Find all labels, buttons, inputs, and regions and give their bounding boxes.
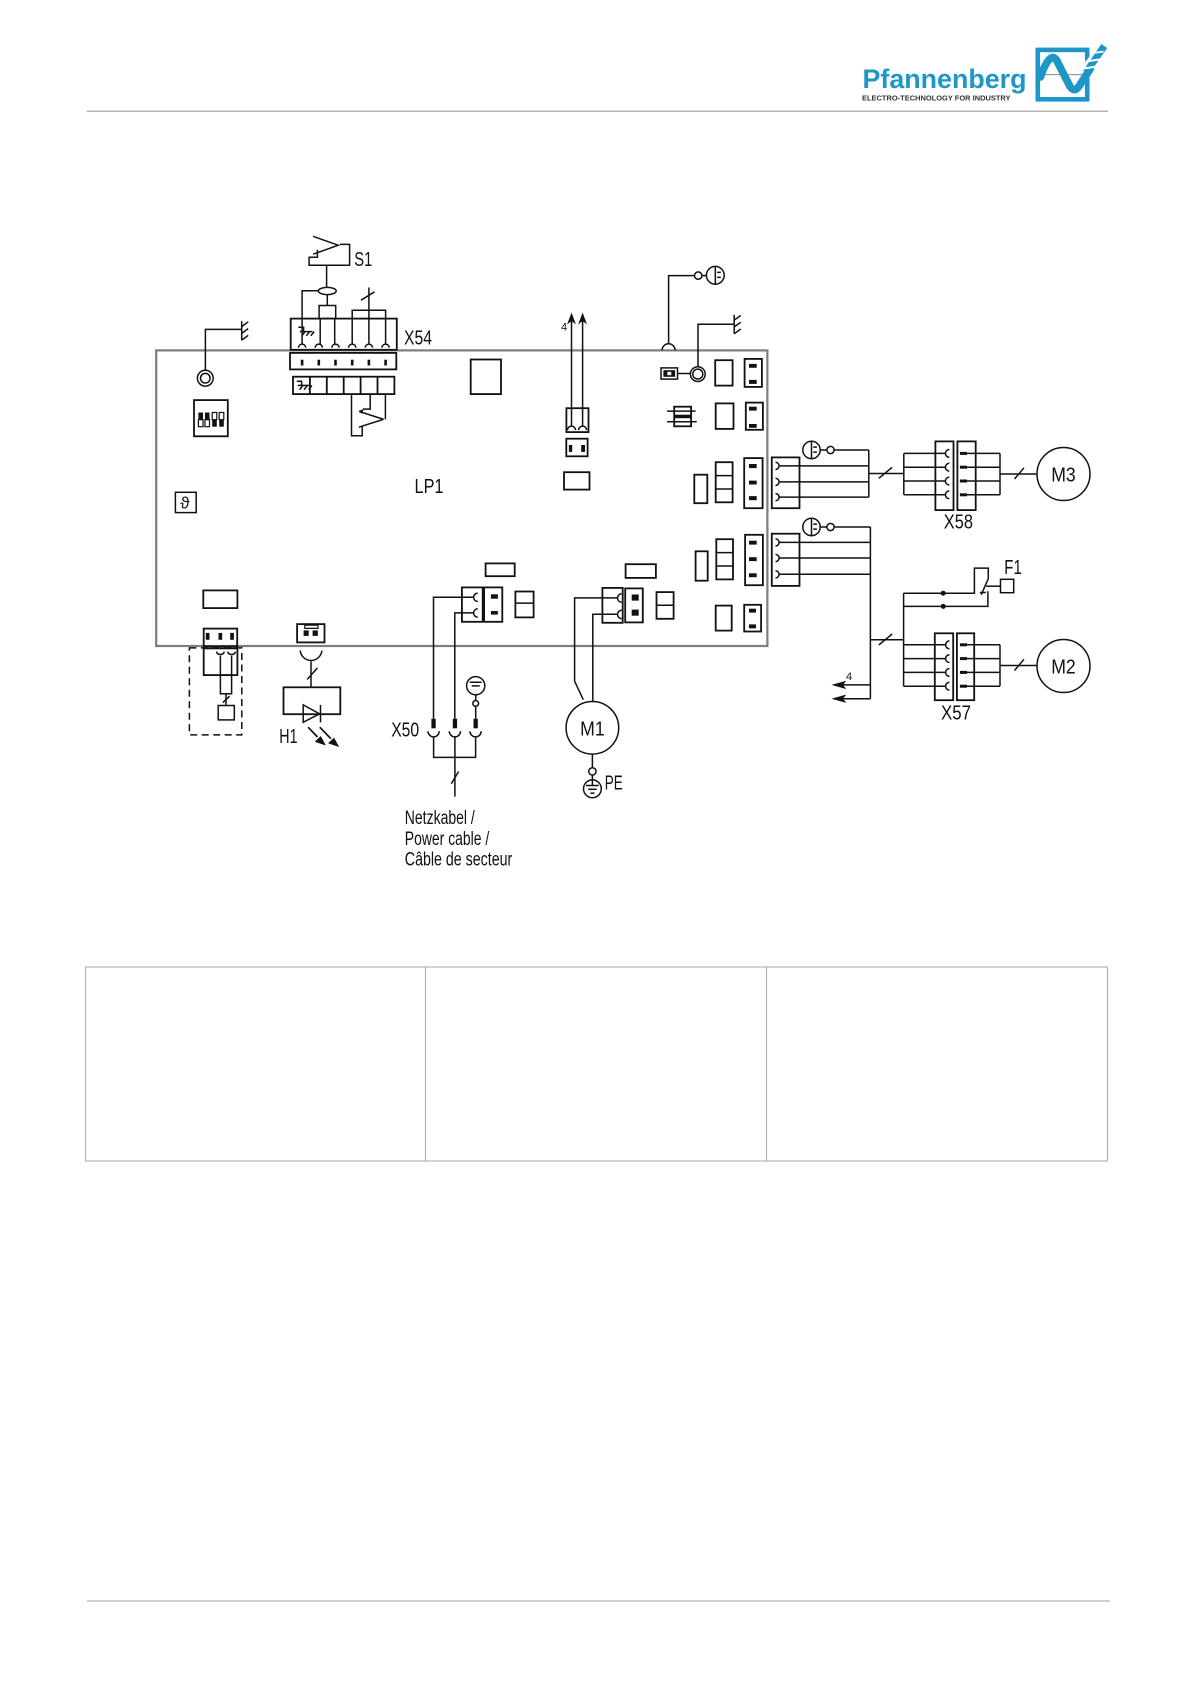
wire chassis to mounting hole (right) (698, 324, 734, 366)
wire M1 to PE (591, 754, 593, 768)
board edge connector (to X58) (772, 457, 800, 508)
relay block row2 (716, 403, 734, 429)
temperature sensor (top) (702, 266, 724, 284)
thermal contact F1 lever (980, 579, 1001, 595)
wire to F1 contact (upper) (904, 568, 989, 596)
svg-text:S1: S1 (354, 249, 372, 271)
bus vertical (X58 side) (868, 450, 870, 497)
cable single line to X57 with slash (870, 634, 903, 645)
terminal socket arcs X50 (428, 731, 481, 737)
svg-text:M3: M3 (1051, 464, 1076, 486)
square component on board top (471, 360, 501, 395)
temperature sensor (X58 feed) (803, 441, 820, 458)
connector X57 socket half (935, 633, 953, 700)
signal lamp H1 (284, 687, 341, 722)
connector X57 pin half (957, 633, 974, 700)
arrow wires out (4-wire) (833, 682, 870, 702)
triple block (X58 group) (716, 462, 733, 502)
ribbon cable 4-wire (to display) (568, 314, 586, 426)
svg-text:Netzkabel /: Netzkabel / (405, 808, 476, 829)
fuse F1 box (1001, 579, 1014, 592)
connector X54 lower half (pin header) (290, 353, 396, 370)
functional earth symbol in X54 (298, 327, 314, 336)
svg-text:H1: H1 (279, 726, 297, 748)
svg-text:Pfannenberg: Pfannenberg (863, 64, 1027, 94)
switch S1 (float switch) (309, 236, 350, 265)
chassis ground (top left) (242, 321, 249, 340)
terminal circle (sensor) (695, 272, 702, 279)
header rule (87, 110, 1108, 112)
connector socket (M1, on board) (602, 588, 622, 623)
wires out of X58 (967, 453, 1000, 494)
jumper box over X54 pins 2-3 (319, 306, 336, 345)
svg-text:F1: F1 (1004, 557, 1022, 579)
triple block (X57 group) (716, 539, 733, 579)
wires into X57 socket (904, 645, 946, 686)
connector X58 socket half (935, 441, 953, 510)
motor M3 (1037, 448, 1090, 501)
LED arrows (H1) (308, 727, 338, 746)
wire to M3 with slash (1000, 468, 1037, 479)
wire board to temperature sensor (669, 276, 695, 345)
connector 2-pin row2 (746, 403, 763, 430)
terminal circle (X57 feed) (827, 523, 834, 530)
svg-text:ϑ: ϑ (180, 494, 190, 513)
cable single line to X58 with slash (869, 467, 904, 478)
mains cable bus (434, 737, 476, 797)
component block (M1) (657, 592, 674, 619)
connector 2-pin socket (ribbon) (566, 408, 588, 432)
table (empty, 3 columns) (86, 967, 1108, 1161)
rect above M1 connector (626, 564, 656, 578)
wire chassis to mounting hole (left) (205, 329, 241, 370)
connector X58 pin half (957, 441, 975, 510)
connector 3-pin (X57 group) (745, 535, 763, 585)
svg-text:X58: X58 (944, 511, 973, 533)
component block (mains) (515, 592, 533, 618)
temperature sensor (X57 feed) (803, 518, 820, 535)
connector socket (mains, on board) (462, 587, 483, 621)
relay block bottom row (716, 606, 732, 631)
connector X54 upper half (291, 319, 397, 350)
mounting hole left (double circle) (197, 370, 213, 386)
thermostat symbol box (175, 492, 196, 512)
Pfannenberg logo mark (1038, 36, 1111, 99)
heater block (218, 706, 234, 720)
wire to M2 with slash (1000, 659, 1037, 670)
svg-text:PE: PE (605, 772, 623, 794)
wire N (mains) (455, 613, 474, 719)
fan-out vertical (X57) (903, 593, 905, 686)
wire M1 phase 1 (575, 598, 618, 700)
wire sensor to bus (X58) (820, 449, 869, 451)
relay changeover contact below terminal strip (352, 394, 386, 436)
connector 2-pin plug (ribbon) (566, 439, 587, 457)
DIP switch block (194, 400, 228, 436)
heater element (narrow box) (220, 675, 231, 694)
wire with slash to heater block (223, 694, 230, 706)
footer rule (87, 1600, 1110, 1602)
wire with slash to H1 (307, 661, 317, 687)
connector 3-pin plug (heater, on board) (204, 629, 238, 647)
svg-text:X57: X57 (941, 702, 971, 724)
svg-text:LP1: LP1 (415, 476, 444, 498)
X54 pins (6) (301, 360, 387, 366)
connector 2-pin row1 (745, 359, 762, 387)
connector 2-pin bottom row (744, 605, 761, 632)
connector plug pins (mains, on board) (484, 587, 502, 621)
terminals X50 (3 black) (431, 719, 477, 729)
relay block row1 (715, 360, 732, 385)
fan-out vertical (X58) (903, 453, 905, 494)
capacitor block (X57 group) (696, 551, 708, 580)
connector 2-pin plug (H1, on board) (297, 624, 324, 642)
terminal circle (X58 feed) (827, 446, 834, 453)
dashed option outline (heater) (189, 648, 241, 735)
svg-text:M2: M2 (1051, 656, 1076, 678)
protective earth symbol (584, 775, 602, 798)
rect above mains connector (486, 563, 515, 576)
functional earth symbol in terminal cell 1 (297, 381, 312, 389)
wire L (mains) (434, 597, 474, 719)
svg-text:X54: X54 (404, 327, 432, 349)
PCB board LP1 outline (156, 350, 767, 646)
earth clamp symbol (467, 677, 485, 719)
mounting hole right (double circle) (690, 367, 705, 382)
wire S1 to transformer (326, 266, 328, 288)
svg-text:Câble de secteur: Câble de secteur (405, 850, 513, 871)
wire to F1 contact (lower) (904, 591, 988, 609)
solder jumper (661, 368, 690, 379)
capacitor block (X58 group) (694, 475, 707, 504)
connector plug pins (M1, on board) (625, 588, 643, 622)
svg-text:ELECTRO-TECHNOLOGY FOR INDUSTR: ELECTRO-TECHNOLOGY FOR INDUSTRY (862, 93, 1011, 102)
bus vertical (X57 side) (869, 527, 871, 699)
disconnect link over X54 pins 4-6 (352, 288, 385, 345)
wire sensor to bus (X57) (820, 526, 870, 528)
wires edge connector to bus (X58 side) (779, 466, 869, 497)
motor M1 (566, 702, 619, 755)
PE terminal circle (589, 768, 596, 775)
wire M1 phase 2 (593, 614, 618, 701)
socket arc (H1) (300, 651, 322, 661)
chassis ground (top right) (734, 315, 741, 334)
wire to X54 pin 1 (302, 291, 318, 344)
wires into X58 socket (904, 453, 946, 494)
component rect below ribbon connector (564, 472, 590, 489)
wire transformer to jumper box (326, 295, 328, 306)
svg-text:X50: X50 (391, 720, 419, 742)
terminal strip below X54 (293, 377, 394, 394)
small rect above left connector (203, 590, 237, 608)
svg-text:4: 4 (561, 321, 567, 333)
svg-text:Power cable /: Power cable / (405, 829, 490, 850)
svg-text:4: 4 (846, 671, 852, 683)
current transformer (ellipse) (318, 287, 336, 294)
connector 3-pin (X58 group) (744, 458, 762, 508)
wires edge connector to bus (X57 side) (779, 542, 870, 574)
connector socket housing (heater) (204, 648, 238, 675)
svg-text:M1: M1 (580, 718, 605, 740)
motor M2 (1037, 640, 1090, 693)
X54 socket contacts (6 arcs) (299, 344, 390, 348)
wires out of X57 (967, 645, 1000, 686)
socket arc on board edge (sensor wire) (662, 344, 675, 351)
board edge connector (to X57) (772, 534, 800, 586)
transformer T1 (667, 407, 697, 427)
